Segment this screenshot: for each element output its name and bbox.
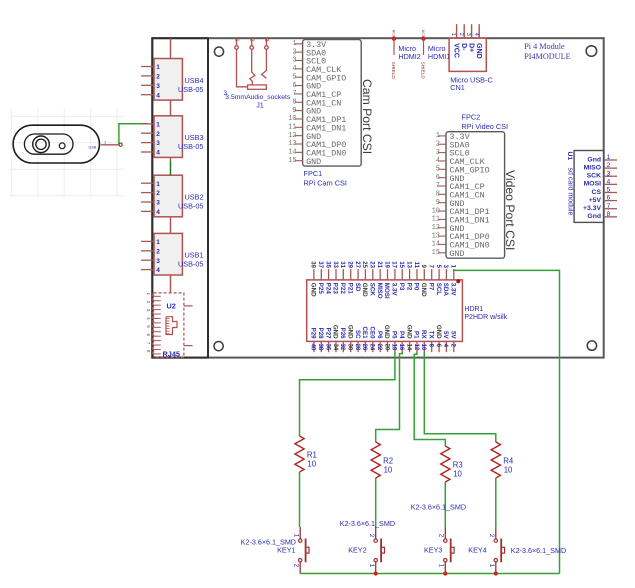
svg-text:8: 8	[436, 191, 440, 199]
wire USB1-U2	[170, 275, 172, 293]
svg-text:P21: P21	[346, 283, 353, 295]
svg-text:CN1: CN1	[450, 83, 465, 92]
svg-text:PI4MODULE: PI4MODULE	[524, 52, 570, 61]
HDR1 top pins	[314, 269, 454, 280]
connector CN1 Micro USB-C	[449, 38, 486, 71]
svg-text:10: 10	[384, 465, 393, 474]
wire HDR1 pin18 to R1	[300, 352, 395, 436]
svg-text:34: 34	[332, 344, 338, 351]
svg-text:5: 5	[292, 73, 296, 81]
svg-text:3: 3	[156, 200, 160, 207]
svg-text:U1: U1	[566, 152, 573, 161]
svg-text:3: 3	[263, 39, 269, 42]
svg-text:Pi 4 Module: Pi 4 Module	[524, 42, 565, 51]
HDR1 pin1 marker dot	[456, 279, 460, 283]
svg-text:3: 3	[146, 309, 151, 312]
FPC2 pin numbers	[432, 132, 440, 257]
connector FPC1 box	[303, 40, 362, 167]
svg-text:+3.3V: +3.3V	[583, 205, 601, 212]
svg-text:CE0: CE0	[369, 327, 376, 340]
svg-text:GND: GND	[310, 283, 317, 297]
svg-text:1: 1	[368, 564, 375, 568]
svg-text:19: 19	[383, 261, 389, 268]
svg-text:31: 31	[339, 261, 345, 268]
svg-text:P5: P5	[391, 331, 398, 339]
svg-text:RPi Video CSI: RPi Video CSI	[462, 122, 509, 131]
svg-text:11: 11	[288, 124, 296, 132]
svg-text:2: 2	[436, 140, 440, 148]
svg-text:3: 3	[292, 57, 296, 65]
svg-text:3.3V: 3.3V	[391, 283, 398, 297]
background grid	[10, 109, 124, 197]
svg-text:MOSI: MOSI	[584, 181, 601, 188]
svg-text:GND: GND	[475, 43, 482, 59]
svg-text:KEY2: KEY2	[348, 546, 366, 555]
switch KEY2	[374, 527, 385, 574]
switch KEY4	[494, 527, 505, 574]
svg-text:3: 3	[156, 140, 160, 147]
svg-text:7: 7	[428, 265, 434, 269]
HDR1 bottom pin names	[310, 325, 457, 340]
svg-text:4: 4	[607, 178, 611, 185]
svg-text:23: 23	[369, 261, 375, 268]
svg-text:7: 7	[292, 90, 296, 98]
svg-text:GND: GND	[306, 157, 321, 167]
svg-text:10: 10	[504, 465, 513, 474]
svg-text:P7: P7	[427, 283, 434, 291]
wire 3.3V from HDR1 pin1 to right rail	[454, 269, 560, 573]
svg-text:25: 25	[361, 261, 367, 268]
FPC1 pin names	[306, 40, 346, 167]
svg-text:15: 15	[432, 249, 440, 257]
svg-text:MOSI: MOSI	[383, 283, 390, 299]
svg-text:P6: P6	[376, 331, 383, 339]
resistor R1	[295, 436, 304, 472]
wire top border to USB4	[170, 38, 172, 58]
svg-text:R4: R4	[503, 456, 514, 465]
svg-text:+5V: +5V	[589, 197, 602, 204]
svg-text:NC1: NC1	[392, 30, 396, 37]
svg-text:3: 3	[156, 83, 160, 90]
svg-text:14: 14	[288, 149, 296, 157]
mounting hole bottom-right	[587, 341, 596, 350]
svg-text:HDR1: HDR1	[464, 306, 483, 313]
svg-text:P1: P1	[413, 331, 420, 339]
connector U2 RJ45	[154, 293, 184, 358]
svg-text:5V: 5V	[450, 331, 457, 339]
svg-text:HDMI1: HDMI1	[428, 52, 450, 61]
svg-text:Cam Port CSI: Cam Port CSI	[360, 79, 374, 154]
svg-text:P2: P2	[405, 283, 412, 291]
svg-text:2: 2	[156, 74, 160, 81]
sheet border	[152, 38, 603, 357]
svg-text:4: 4	[146, 317, 151, 320]
svg-text:RX: RX	[420, 330, 427, 339]
svg-text:14: 14	[405, 344, 411, 351]
svg-text:4: 4	[473, 33, 479, 36]
wire R3 to KEY3	[444, 482, 446, 527]
svg-text:10: 10	[420, 344, 426, 351]
svg-text:sd card module: sd card module	[566, 168, 573, 216]
svg-text:HDMI2: HDMI2	[398, 52, 420, 61]
svg-text:40: 40	[310, 344, 316, 351]
svg-text:FPC2: FPC2	[462, 112, 481, 121]
svg-text:RPi Cam CSI: RPi Cam CSI	[304, 179, 347, 188]
wire USB4-USB3	[170, 100, 172, 116]
svg-text:2: 2	[368, 534, 375, 538]
svg-text:5: 5	[607, 187, 611, 194]
svg-text:2: 2	[458, 33, 464, 36]
wire HDR1 pin12 to R3	[414, 352, 445, 446]
switch KEY3	[444, 527, 455, 574]
svg-text:USB-05: USB-05	[178, 260, 204, 269]
U2 left pins	[153, 294, 161, 354]
svg-text:CS: CS	[592, 189, 602, 196]
connector J1 3.5mm audio socket	[235, 37, 269, 89]
svg-text:NC1: NC1	[421, 30, 425, 37]
svg-text:3: 3	[442, 265, 448, 269]
svg-text:P4: P4	[398, 331, 405, 339]
svg-text:SDA: SDA	[442, 283, 449, 297]
switch KEY1	[299, 527, 310, 574]
svg-text:18: 18	[391, 344, 397, 351]
mounting hole top-right	[586, 46, 597, 57]
svg-text:1: 1	[438, 564, 445, 568]
wire camera to corner (red segment)	[101, 144, 119, 146]
svg-text:USB1: USB1	[184, 251, 203, 260]
svg-text:3: 3	[465, 33, 471, 36]
wire bottom rail	[300, 573, 559, 575]
camera module drawing	[13, 125, 99, 163]
svg-text:8: 8	[428, 344, 434, 348]
connector USB3 (USB-05)	[154, 116, 182, 158]
U2 right pins	[184, 305, 193, 307]
svg-text:11: 11	[413, 262, 419, 269]
svg-text:USB2: USB2	[184, 193, 203, 202]
svg-text:Video Port CSI: Video Port CSI	[503, 170, 517, 250]
svg-text:Gnd: Gnd	[587, 156, 601, 163]
svg-text:10: 10	[288, 115, 296, 123]
svg-text:2: 2	[450, 344, 456, 348]
camera pin circle	[119, 143, 122, 146]
wire HDR1 pin10 to R4	[424, 352, 496, 442]
connector USB2 (USB-05)	[154, 175, 182, 217]
svg-text:1: 1	[146, 293, 151, 296]
svg-text:5: 5	[436, 166, 440, 174]
svg-text:30: 30	[347, 344, 353, 351]
FPC1 pins	[295, 44, 303, 161]
wire R4 to KEY4	[495, 478, 497, 527]
svg-text:36: 36	[324, 344, 330, 351]
svg-text:USB: USB	[89, 145, 97, 149]
svg-text:SCK: SCK	[587, 173, 601, 180]
module U1 sd card	[574, 151, 603, 223]
svg-text:4: 4	[156, 267, 160, 274]
svg-text:24: 24	[369, 344, 375, 351]
svg-text:13: 13	[432, 232, 440, 240]
svg-text:GND: GND	[405, 325, 412, 339]
svg-text:7: 7	[146, 342, 151, 345]
svg-text:2: 2	[249, 39, 255, 42]
svg-text:7: 7	[607, 203, 611, 210]
svg-text:P2HDR w/silk: P2HDR w/silk	[464, 314, 507, 321]
svg-text:17: 17	[391, 261, 397, 268]
svg-text:2: 2	[156, 190, 160, 197]
wire HDR1 pin16 to R2	[376, 352, 403, 442]
U2 pin numbers	[146, 293, 151, 353]
svg-text:4: 4	[156, 209, 160, 216]
svg-text:R3: R3	[453, 460, 463, 469]
svg-text:38: 38	[317, 344, 323, 351]
HDR1 bottom pins	[314, 341, 454, 352]
svg-text:USB3: USB3	[184, 133, 203, 142]
svg-text:P0: P0	[413, 283, 420, 291]
svg-text:GND: GND	[450, 249, 465, 259]
svg-text:USB-05: USB-05	[178, 142, 204, 151]
svg-text:4: 4	[156, 92, 160, 99]
svg-text:10: 10	[453, 469, 462, 478]
svg-text:P3: P3	[398, 283, 405, 291]
svg-text:8: 8	[607, 211, 611, 218]
svg-text:1: 1	[104, 141, 106, 145]
junction dot KEY4	[494, 571, 498, 575]
svg-text:GND: GND	[420, 283, 427, 297]
svg-text:39: 39	[310, 261, 316, 268]
svg-text:GND: GND	[346, 325, 353, 339]
svg-text:16: 16	[398, 344, 404, 351]
svg-text:USB4: USB4	[184, 76, 203, 85]
svg-text:K2-3.6×6.1_SMD: K2-3.6×6.1_SMD	[340, 519, 395, 528]
svg-text:32: 32	[339, 344, 345, 351]
svg-text:6: 6	[607, 195, 611, 202]
svg-text:1: 1	[156, 121, 160, 128]
svg-text:MISO: MISO	[376, 283, 383, 299]
svg-text:R2: R2	[383, 456, 393, 465]
svg-text:P22: P22	[339, 283, 346, 295]
svg-text:1: 1	[450, 33, 456, 36]
svg-text:20: 20	[383, 344, 389, 351]
svg-text:GND: GND	[435, 325, 442, 339]
FPC2 pins	[438, 136, 446, 253]
svg-text:D+: D+	[467, 43, 474, 52]
svg-text:27: 27	[354, 261, 360, 268]
svg-text:4: 4	[156, 150, 160, 157]
svg-text:P23: P23	[332, 283, 339, 295]
svg-text:SHIELD: SHIELD	[390, 62, 396, 80]
svg-text:KEY1: KEY1	[277, 546, 295, 555]
svg-text:RJ45: RJ45	[163, 350, 180, 359]
svg-text:12: 12	[413, 344, 419, 351]
svg-text:35: 35	[324, 261, 330, 268]
svg-text:12: 12	[432, 224, 440, 232]
svg-text:1: 1	[156, 239, 160, 246]
svg-text:8: 8	[146, 350, 151, 353]
svg-text:CE1: CE1	[361, 327, 368, 340]
svg-text:K2-3.6×6.1_SMD: K2-3.6×6.1_SMD	[411, 503, 466, 512]
svg-text:2: 2	[488, 534, 495, 538]
mounting hole bottom-left	[214, 342, 223, 351]
connector FPC2 box	[446, 132, 505, 259]
svg-text:GND: GND	[332, 325, 339, 339]
svg-text:6: 6	[292, 82, 296, 90]
mounting hole top-left	[214, 47, 223, 56]
svg-text:2: 2	[438, 534, 445, 538]
svg-text:2: 2	[292, 48, 296, 56]
svg-text:1: 1	[607, 154, 611, 161]
svg-text:P29: P29	[310, 328, 317, 340]
svg-text:5V: 5V	[442, 331, 449, 339]
header HDR1 box	[307, 280, 463, 342]
FPC1 pin numbers	[288, 40, 296, 165]
svg-text:11: 11	[432, 216, 440, 224]
svg-text:21: 21	[376, 261, 382, 268]
junction dot KEY2	[374, 571, 378, 575]
svg-text:9: 9	[436, 199, 440, 207]
svg-text:2: 2	[292, 564, 299, 568]
svg-text:KEY3: KEY3	[424, 546, 442, 555]
svg-text:FPC1: FPC1	[304, 169, 323, 178]
svg-text:SHIELD: SHIELD	[420, 62, 426, 80]
svg-text:13: 13	[288, 140, 296, 148]
resistor R3	[441, 446, 450, 482]
svg-text:SCL: SCL	[435, 283, 442, 296]
svg-text:5: 5	[435, 265, 441, 269]
svg-text:Gnd: Gnd	[587, 213, 601, 220]
svg-text:P24: P24	[324, 283, 331, 295]
wire camera to USB3 pin 1	[119, 124, 149, 145]
svg-text:P26: P26	[339, 328, 346, 340]
svg-text:9: 9	[420, 265, 426, 269]
svg-text:SC: SC	[354, 330, 361, 339]
svg-text:3: 3	[156, 258, 160, 265]
svg-text:15: 15	[288, 157, 296, 165]
Micro HDMI1 pin	[421, 37, 425, 41]
svg-text:1: 1	[488, 564, 495, 568]
svg-text:VCC: VCC	[452, 43, 459, 58]
svg-text:D-: D-	[460, 43, 467, 51]
svg-text:2: 2	[607, 162, 611, 169]
svg-text:4: 4	[292, 65, 296, 73]
svg-text:3.3V: 3.3V	[450, 283, 457, 297]
svg-text:1: 1	[156, 64, 160, 71]
U2 RJ45 jack icon	[166, 317, 177, 335]
resistor R4	[491, 442, 500, 478]
svg-text:GND: GND	[383, 325, 390, 339]
svg-text:37: 37	[317, 261, 323, 268]
svg-text:P25: P25	[317, 283, 324, 295]
svg-text:9: 9	[292, 107, 296, 115]
svg-text:USB-05: USB-05	[178, 202, 204, 211]
svg-text:29: 29	[347, 261, 353, 268]
svg-text:1: 1	[156, 181, 160, 188]
HDR1 bottom pin numbers	[310, 344, 456, 351]
resistor R2	[371, 442, 380, 478]
svg-text:14: 14	[432, 241, 440, 249]
svg-text:3: 3	[607, 170, 611, 177]
svg-text:USB-05: USB-05	[178, 85, 204, 94]
svg-text:J1: J1	[256, 101, 264, 110]
svg-text:5: 5	[146, 325, 151, 328]
svg-text:6: 6	[146, 334, 151, 337]
svg-text:2: 2	[146, 301, 151, 304]
svg-text:1: 1	[450, 265, 456, 269]
svg-text:GND: GND	[361, 283, 368, 297]
svg-text:2: 2	[156, 248, 160, 255]
wire USB3-USB2 (part green)	[170, 157, 172, 161]
svg-text:U2: U2	[167, 302, 176, 311]
svg-text:22: 22	[376, 344, 382, 351]
left strip border (board outline)	[152, 38, 208, 357]
svg-text:KEY4: KEY4	[468, 546, 486, 555]
svg-text:2: 2	[156, 131, 160, 138]
svg-text:1: 1	[233, 39, 239, 42]
svg-text:13: 13	[405, 261, 411, 268]
HDR1 top pin numbers	[310, 261, 456, 268]
svg-text:MISO: MISO	[584, 164, 601, 171]
svg-text:SCK: SCK	[369, 283, 376, 297]
wire R2 to KEY2	[375, 478, 377, 527]
svg-text:6: 6	[435, 344, 441, 348]
HDR1 top pin names	[310, 283, 457, 299]
svg-text:R1: R1	[307, 450, 317, 459]
svg-text:4: 4	[442, 344, 448, 348]
svg-text:28: 28	[354, 344, 360, 351]
svg-text:P27: P27	[324, 328, 331, 340]
svg-text:26: 26	[361, 344, 367, 351]
junction dot KEY3	[443, 571, 447, 575]
svg-text:10: 10	[307, 459, 316, 468]
wire USB2-USB1	[170, 217, 172, 234]
svg-text:TX: TX	[427, 331, 434, 340]
svg-text:4: 4	[436, 157, 440, 165]
svg-text:8: 8	[292, 98, 296, 106]
Micro HDMI2 pin	[392, 37, 396, 41]
connector USB1 (USB-05)	[154, 233, 182, 275]
svg-text:1: 1	[292, 40, 296, 48]
svg-text:7: 7	[436, 182, 440, 190]
svg-text:10: 10	[432, 207, 440, 215]
svg-text:6: 6	[436, 174, 440, 182]
FPC2 pin names	[450, 132, 490, 259]
svg-text:SD: SD	[354, 283, 361, 292]
svg-text:33: 33	[332, 261, 338, 268]
svg-text:15: 15	[398, 261, 404, 268]
svg-text:1: 1	[436, 132, 440, 140]
svg-text:12: 12	[288, 132, 296, 140]
svg-text:3: 3	[436, 149, 440, 157]
svg-text:P28: P28	[317, 328, 324, 340]
wire R1 to KEY1	[299, 472, 301, 527]
svg-text:K2-3.6×6.1_SMD: K2-3.6×6.1_SMD	[511, 546, 566, 555]
connector USB4 (USB-05)	[154, 59, 182, 101]
